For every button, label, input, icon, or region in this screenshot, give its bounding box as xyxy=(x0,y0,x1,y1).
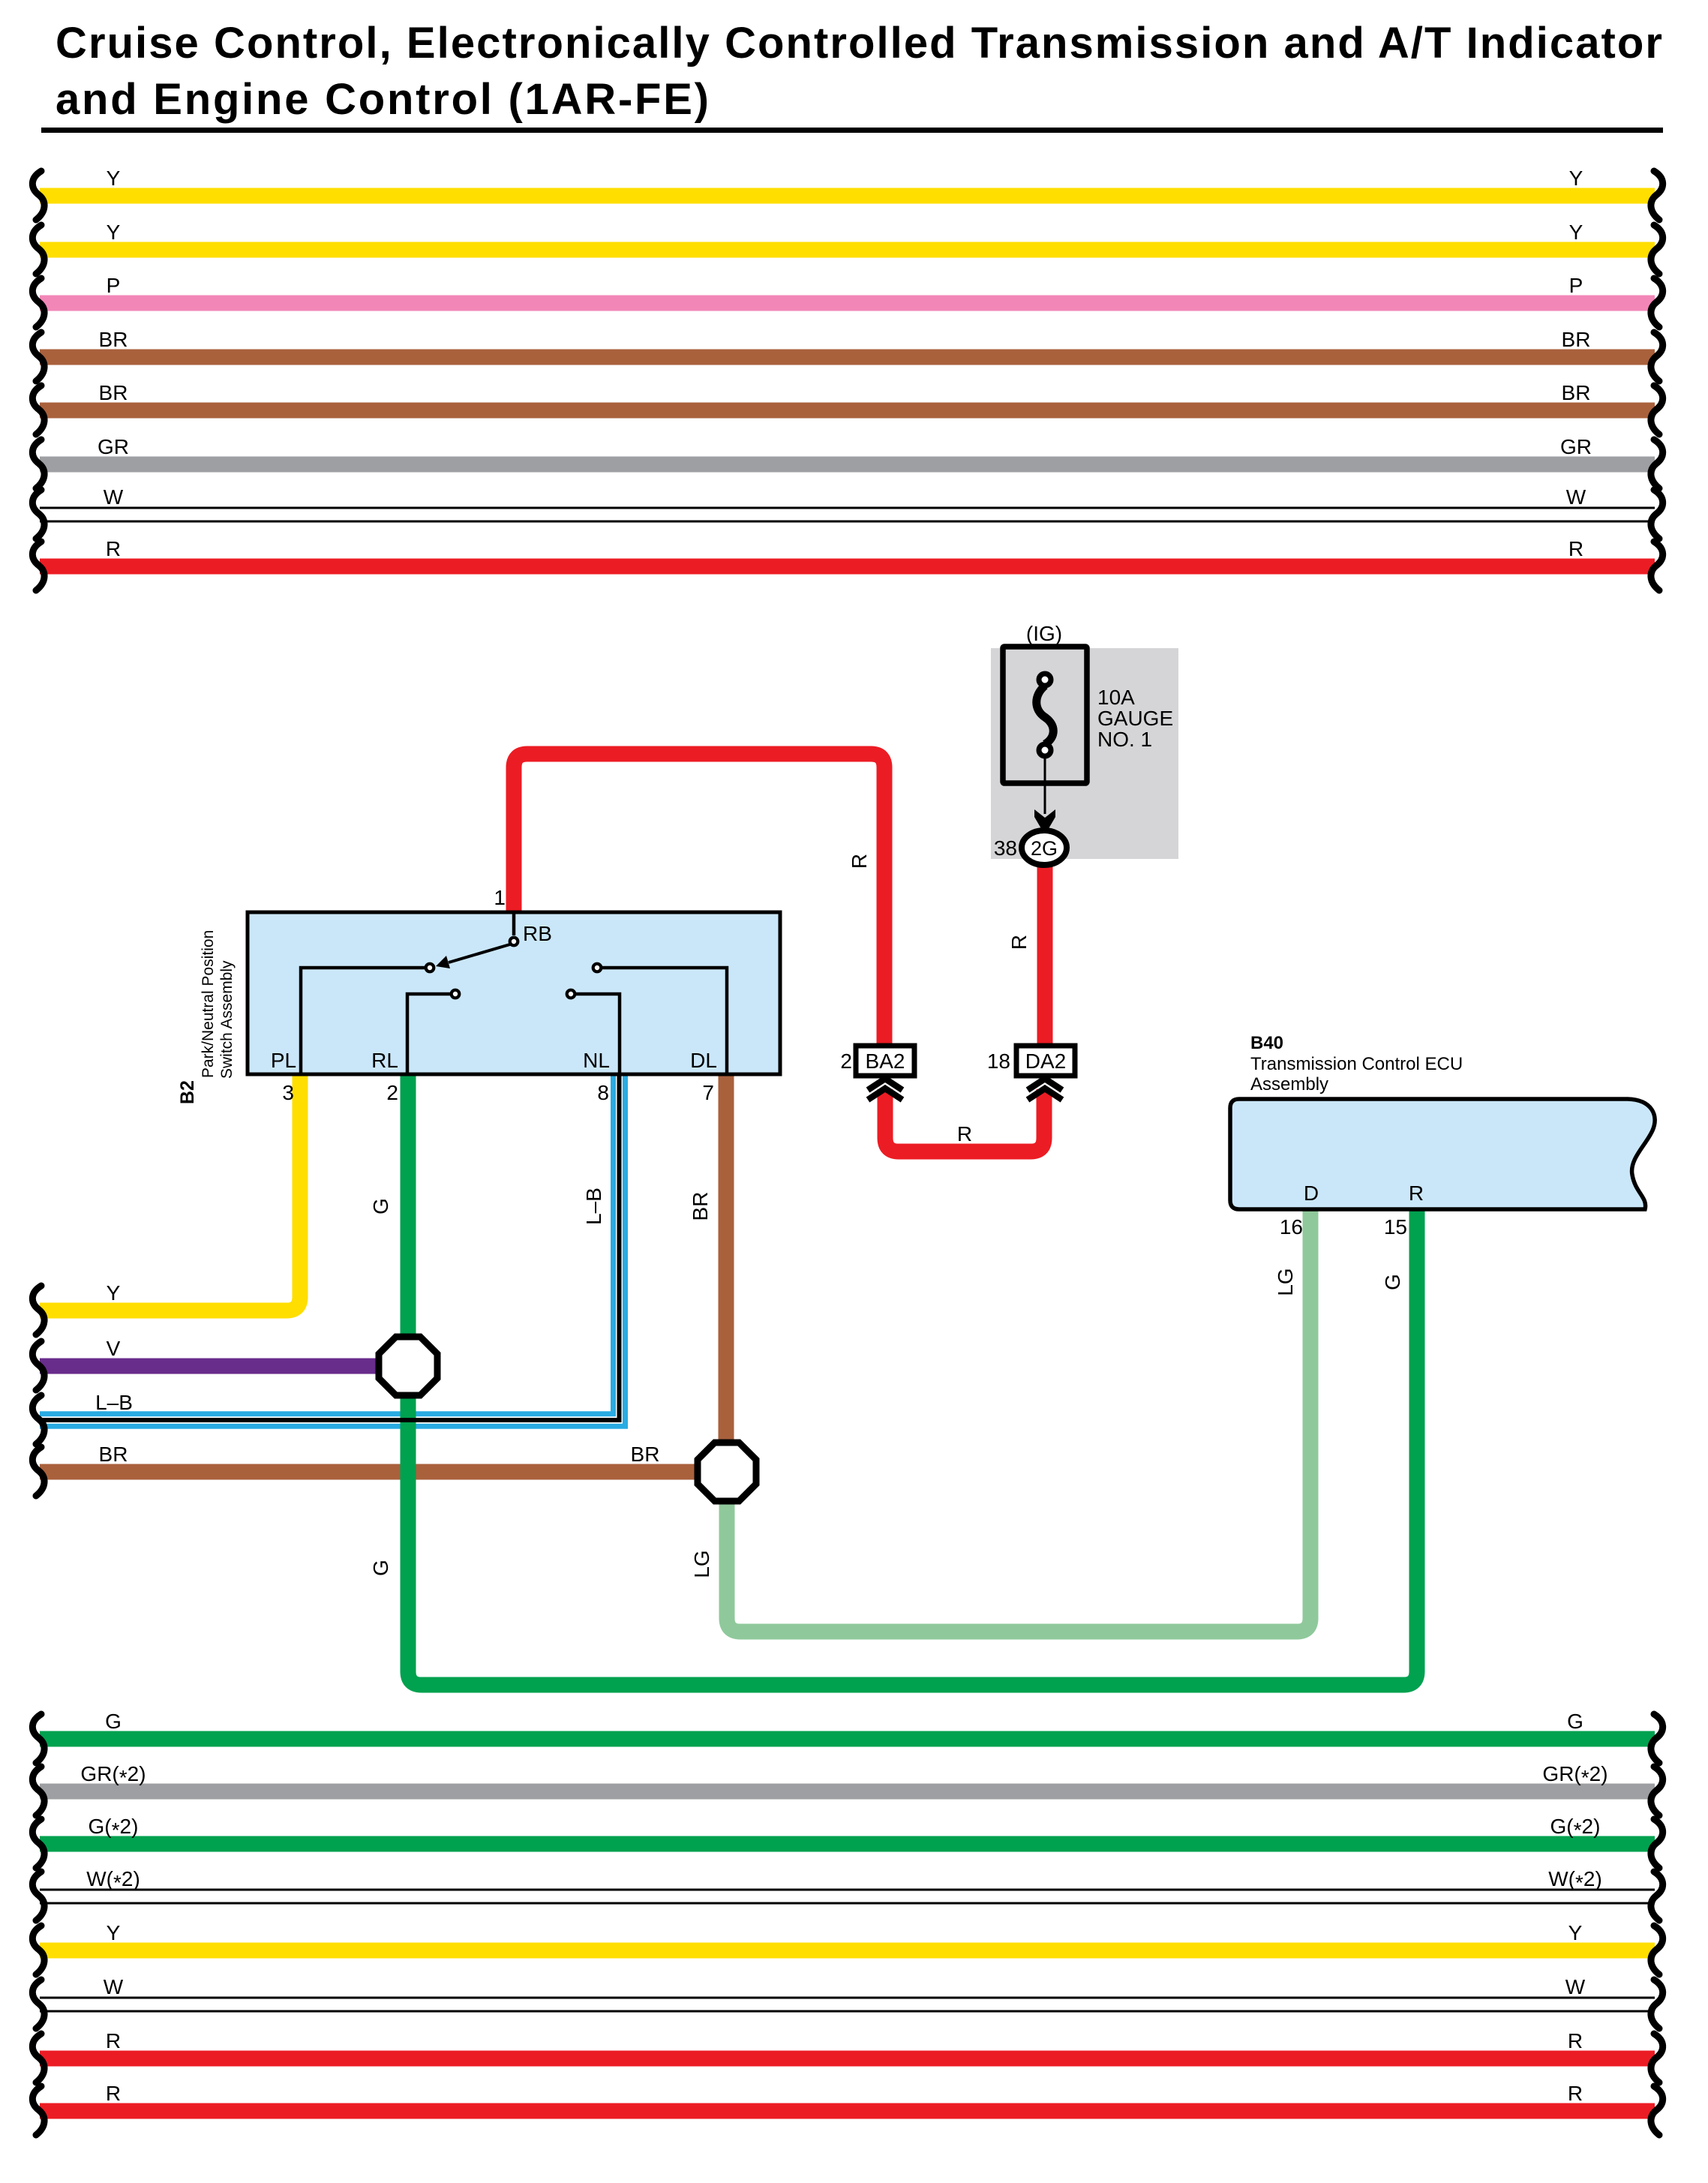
svg-text:Y: Y xyxy=(1568,1921,1583,1944)
svg-text:Cruise Control, Electronically: Cruise Control, Electronically Controlle… xyxy=(56,19,1662,68)
svg-text:W(*2): W(*2) xyxy=(86,1867,140,1894)
svg-text:R: R xyxy=(106,537,121,560)
svg-text:B2: B2 xyxy=(177,1080,198,1104)
svg-text:G(*2): G(*2) xyxy=(89,1815,139,1842)
svg-text:Assembly: Assembly xyxy=(1250,1074,1328,1095)
svg-text:R: R xyxy=(1568,2082,1583,2105)
svg-text:(IG): (IG) xyxy=(1026,622,1062,645)
svg-text:1: 1 xyxy=(494,886,506,909)
svg-text:Y: Y xyxy=(107,1921,121,1944)
svg-text:P: P xyxy=(107,274,121,297)
svg-text:V: V xyxy=(107,1337,121,1360)
svg-text:W(*2): W(*2) xyxy=(1548,1867,1602,1894)
svg-text:P: P xyxy=(1569,274,1583,297)
svg-text:G: G xyxy=(369,1560,392,1576)
svg-text:Y: Y xyxy=(107,1281,121,1305)
svg-text:R: R xyxy=(1568,2029,1583,2052)
svg-text:W: W xyxy=(104,485,124,509)
svg-text:10A: 10A xyxy=(1097,686,1135,709)
svg-text:R: R xyxy=(1568,537,1583,560)
svg-text:R: R xyxy=(957,1122,972,1146)
svg-text:BR: BR xyxy=(99,381,128,404)
svg-text:DA2: DA2 xyxy=(1025,1049,1066,1073)
svg-text:D: D xyxy=(1304,1182,1319,1205)
svg-text:LG: LG xyxy=(690,1550,713,1578)
svg-text:15: 15 xyxy=(1384,1215,1407,1239)
svg-text:L–B: L–B xyxy=(95,1391,133,1414)
svg-text:G: G xyxy=(105,1710,122,1733)
svg-text:Y: Y xyxy=(107,167,121,190)
svg-text:DL: DL xyxy=(690,1049,717,1072)
svg-text:R: R xyxy=(848,854,871,869)
svg-text:2: 2 xyxy=(386,1081,398,1104)
svg-text:Switch Assembly: Switch Assembly xyxy=(218,960,236,1079)
svg-text:BR: BR xyxy=(99,328,128,351)
svg-text:and Engine Control (1AR-FE): and Engine Control (1AR-FE) xyxy=(56,75,709,124)
svg-text:3: 3 xyxy=(282,1081,294,1104)
svg-text:NO. 1: NO. 1 xyxy=(1097,728,1152,751)
svg-text:B40: B40 xyxy=(1250,1033,1283,1053)
svg-text:G: G xyxy=(369,1198,392,1215)
svg-text:R: R xyxy=(1007,935,1031,950)
svg-text:RB: RB xyxy=(523,922,552,945)
svg-text:W: W xyxy=(1566,485,1586,509)
svg-text:BA2: BA2 xyxy=(866,1049,905,1073)
svg-text:R: R xyxy=(1409,1182,1424,1205)
svg-text:GAUGE: GAUGE xyxy=(1097,707,1173,730)
svg-text:38: 38 xyxy=(994,836,1017,860)
svg-text:18: 18 xyxy=(987,1049,1010,1073)
svg-text:GR: GR xyxy=(98,435,129,458)
svg-text:2G: 2G xyxy=(1031,837,1058,860)
svg-text:NL: NL xyxy=(583,1049,610,1072)
svg-text:G: G xyxy=(1381,1274,1404,1290)
svg-text:16: 16 xyxy=(1280,1215,1303,1239)
svg-text:Y: Y xyxy=(1569,167,1583,190)
svg-text:W: W xyxy=(104,1975,124,1998)
svg-text:RL: RL xyxy=(371,1049,398,1072)
svg-text:GR(*2): GR(*2) xyxy=(1542,1762,1607,1789)
svg-text:BR: BR xyxy=(99,1443,128,1466)
svg-text:W: W xyxy=(1565,1975,1586,1998)
svg-text:Y: Y xyxy=(1569,221,1583,244)
svg-text:GR: GR xyxy=(1560,435,1592,458)
svg-text:BR: BR xyxy=(689,1192,712,1221)
svg-text:Y: Y xyxy=(107,221,121,244)
svg-text:G(*2): G(*2) xyxy=(1550,1815,1601,1842)
svg-text:G: G xyxy=(1567,1710,1583,1733)
svg-text:7: 7 xyxy=(702,1081,714,1104)
svg-text:2: 2 xyxy=(840,1049,852,1073)
svg-text:BR: BR xyxy=(631,1443,660,1466)
svg-text:LG: LG xyxy=(1274,1268,1297,1296)
svg-text:R: R xyxy=(106,2029,121,2052)
svg-text:8: 8 xyxy=(597,1081,609,1104)
svg-text:PL: PL xyxy=(271,1049,296,1072)
svg-text:Transmission Control ECU: Transmission Control ECU xyxy=(1250,1054,1463,1074)
svg-text:Park/Neutral Position: Park/Neutral Position xyxy=(200,930,217,1078)
svg-text:BR: BR xyxy=(1562,328,1591,351)
svg-text:GR(*2): GR(*2) xyxy=(80,1762,146,1789)
svg-text:L–B: L–B xyxy=(582,1188,605,1225)
svg-text:BR: BR xyxy=(1562,381,1591,404)
svg-text:R: R xyxy=(106,2082,121,2105)
